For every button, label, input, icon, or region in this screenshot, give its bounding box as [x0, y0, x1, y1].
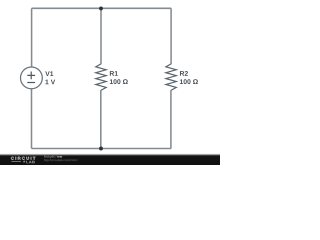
CircuitLab logo dash: [12, 161, 22, 163]
V1 value label: [45, 80, 55, 85]
wire R2 branch upper: [170, 8, 172, 64]
CircuitLab logo LAB: [26, 161, 34, 164]
V1 plus sign: [27, 72, 35, 80]
footer caption line 2 url: [44, 159, 77, 162]
wire bottom horizontal: [32, 148, 172, 150]
wire left vertical lower: [31, 89, 33, 149]
wire top horizontal: [32, 7, 172, 9]
wire R2 branch lower: [170, 90, 172, 148]
node junction top: [99, 6, 103, 10]
wire R1 branch lower: [100, 90, 102, 148]
V1 minus sign: [27, 82, 35, 84]
wire left vertical upper: [31, 8, 33, 67]
R2 name label: [180, 71, 188, 76]
node junction bottom: [99, 147, 103, 151]
R2 value label: [180, 79, 198, 84]
R1 value label: [110, 79, 128, 84]
R1 name label: [110, 71, 118, 76]
footer watermark bar: [0, 153, 220, 165]
CircuitLab logo bolt: [23, 160, 26, 163]
resistor R1: [96, 64, 106, 91]
voltage source V1: [21, 67, 43, 89]
footer caption line 1 user: [44, 156, 56, 159]
V1 name label: [45, 71, 53, 76]
CircuitLab logo CIRCUIT: [11, 157, 35, 160]
footer caption line 1 title: [57, 156, 62, 158]
wire R1 branch upper: [100, 8, 102, 64]
resistor R2: [166, 64, 176, 91]
